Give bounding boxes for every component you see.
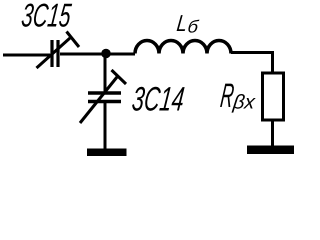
- capacitor C15 trimmer arrow: [37, 38, 71, 68]
- svg-text:3С14: 3С14: [130, 81, 186, 119]
- inductor L coil: [135, 41, 231, 54]
- wire input line left: [3, 54, 50, 57]
- wire vertical branch to C14: [104, 54, 107, 91]
- wire from C14 to ground: [104, 103, 107, 149]
- capacitor C14 plates: [88, 93, 121, 102]
- capacitor C15 plates: [52, 40, 58, 67]
- svg-text:βх: βх: [231, 92, 257, 114]
- capacitor C15 trimmer T-bar: [67, 32, 80, 48]
- ground left: [87, 149, 127, 157]
- junction node: [101, 49, 111, 59]
- resistor R rectangle: [263, 73, 284, 120]
- capacitor C14 trimmer arrow: [80, 77, 117, 123]
- wire resistor to ground: [271, 120, 274, 146]
- wire from inductor to resistor: [231, 53, 273, 73]
- wire from C15 to junction and inductor: [60, 53, 135, 56]
- svg-text:3С15: 3С15: [20, 0, 74, 34]
- svg-text:б: б: [187, 17, 201, 36]
- ground right: [247, 146, 294, 155]
- capacitor C14 trimmer T-bar: [112, 70, 127, 84]
